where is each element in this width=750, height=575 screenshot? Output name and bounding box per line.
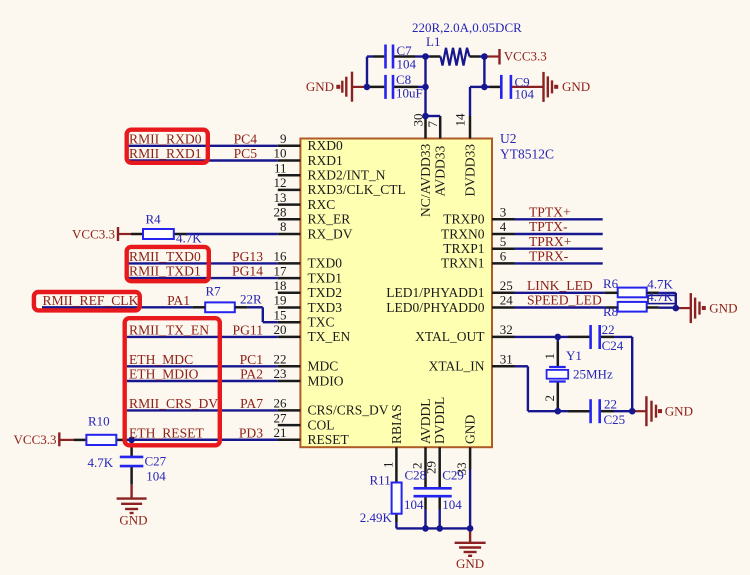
svg-text:C24: C24 [602,338,624,353]
svg-text:14: 14 [453,113,468,127]
svg-text:TPTX-: TPTX- [529,219,568,234]
svg-text:7: 7 [425,121,440,128]
svg-text:ETH_MDIO: ETH_MDIO [129,367,199,382]
svg-text:TRXP1: TRXP1 [443,241,484,256]
svg-text:R10: R10 [88,414,110,429]
svg-text:TPTX+: TPTX+ [529,205,571,220]
svg-text:21: 21 [274,425,287,440]
svg-text:PD3: PD3 [239,425,263,440]
svg-text:RXD2/INT_N: RXD2/INT_N [308,168,386,183]
svg-text:R6: R6 [603,276,619,291]
svg-text:XTAL_IN: XTAL_IN [429,359,485,374]
svg-text:R11: R11 [370,473,391,488]
svg-text:PA2: PA2 [240,367,263,382]
svg-text:PC4: PC4 [234,131,258,146]
svg-text:MDC: MDC [308,359,339,374]
svg-text:10uF: 10uF [396,86,423,101]
svg-text:PC5: PC5 [234,146,258,161]
svg-text:4.7K: 4.7K [88,455,114,470]
svg-text:RMII_RXD1: RMII_RXD1 [129,146,202,161]
svg-text:18: 18 [274,278,287,293]
svg-text:220R,2.0A,0.05DCR: 220R,2.0A,0.05DCR [412,20,522,35]
svg-text:12: 12 [274,175,287,190]
svg-text:MDIO: MDIO [308,373,344,388]
svg-text:LED1/PHYADD1: LED1/PHYADD1 [386,285,484,300]
svg-text:C27: C27 [145,454,167,469]
svg-text:RX_ER: RX_ER [308,212,351,227]
svg-text:17: 17 [274,263,288,278]
svg-text:4: 4 [500,219,507,234]
svg-text:1: 1 [542,353,557,360]
svg-text:PA7: PA7 [240,396,263,411]
svg-text:RMII_REF_CLK: RMII_REF_CLK [43,293,139,308]
svg-text:RXC: RXC [308,197,336,212]
svg-text:13: 13 [274,190,287,205]
svg-text:RX_DV: RX_DV [308,226,353,241]
svg-text:8: 8 [280,219,287,234]
svg-text:4.7K: 4.7K [176,231,202,246]
svg-text:104: 104 [397,56,417,71]
svg-text:25MHz: 25MHz [573,367,613,382]
svg-text:1: 1 [380,462,395,469]
svg-text:RMII_CRS_DV: RMII_CRS_DV [129,396,218,411]
svg-text:C25: C25 [604,412,626,427]
svg-text:DVDD33: DVDD33 [463,144,478,197]
svg-text:27: 27 [274,410,288,425]
svg-text:104: 104 [515,87,535,102]
svg-text:R8: R8 [603,304,618,319]
svg-text:2.49K: 2.49K [360,510,393,525]
svg-text:LINK_LED: LINK_LED [527,278,593,293]
svg-text:19: 19 [274,293,287,308]
svg-text:VCC3.3: VCC3.3 [14,432,57,447]
svg-text:GND: GND [463,415,478,444]
svg-text:CRS/CRS_DV: CRS/CRS_DV [308,403,389,418]
svg-text:GND: GND [709,300,737,315]
svg-text:GND: GND [456,556,484,571]
svg-text:LED0/PHYADD0: LED0/PHYADD0 [386,300,485,315]
svg-text:RMII_TXD1: RMII_TXD1 [129,264,201,279]
svg-text:NC/AVDD33: NC/AVDD33 [418,143,433,217]
svg-text:104: 104 [146,469,166,484]
svg-text:PG13: PG13 [232,249,263,264]
svg-text:RBIAS: RBIAS [389,404,404,444]
svg-text:RMII_TX_EN: RMII_TX_EN [129,322,209,337]
svg-text:Y1: Y1 [566,348,582,363]
svg-text:24: 24 [500,293,514,308]
svg-text:GND: GND [306,79,334,94]
svg-text:6: 6 [500,249,507,264]
svg-text:2: 2 [542,395,557,402]
svg-text:SPEED_LED: SPEED_LED [527,293,602,308]
svg-text:15: 15 [274,307,287,322]
svg-text:28: 28 [274,205,287,220]
svg-text:32: 32 [500,322,513,337]
svg-text:11: 11 [274,160,287,175]
svg-text:TXD1: TXD1 [308,270,343,285]
svg-text:104: 104 [404,497,424,512]
svg-text:U2: U2 [500,131,517,146]
svg-text:20: 20 [274,322,287,337]
svg-text:TXC: TXC [308,315,335,330]
svg-text:TRXN0: TRXN0 [441,226,485,241]
svg-text:TXD2: TXD2 [308,285,343,300]
svg-text:L1: L1 [426,34,440,49]
svg-text:TXD3: TXD3 [308,300,343,315]
svg-text:PG14: PG14 [232,264,263,279]
svg-text:C29: C29 [442,468,464,483]
svg-text:RMII_RXD0: RMII_RXD0 [129,131,202,146]
svg-text:COL: COL [308,417,335,432]
svg-text:30: 30 [411,114,426,127]
svg-text:RESET: RESET [308,432,350,447]
svg-text:PG11: PG11 [233,322,263,337]
svg-text:DVDDL: DVDDL [432,397,447,444]
svg-text:ETH_MDC: ETH_MDC [129,352,193,367]
svg-text:9: 9 [280,131,287,146]
svg-text:AVDD33: AVDD33 [433,145,448,196]
svg-text:31: 31 [500,352,513,367]
svg-text:VCC3.3: VCC3.3 [504,49,547,64]
svg-text:25: 25 [500,278,513,293]
svg-text:R7: R7 [206,284,222,299]
svg-text:TX_EN: TX_EN [308,329,351,344]
svg-text:22: 22 [274,352,287,367]
svg-text:PC1: PC1 [240,352,263,367]
svg-text:C28: C28 [405,468,427,483]
svg-text:RXD3/CLK_CTL: RXD3/CLK_CTL [308,182,406,197]
svg-text:23: 23 [274,366,287,381]
svg-text:GND: GND [562,79,590,94]
svg-text:RMII_TXD0: RMII_TXD0 [129,249,201,264]
svg-text:TRXN1: TRXN1 [441,256,485,271]
svg-text:22: 22 [604,397,617,412]
svg-text:YT8512C: YT8512C [500,147,554,162]
svg-text:R4: R4 [146,211,162,226]
svg-text:4.7K: 4.7K [647,289,673,304]
svg-text:GND: GND [119,512,147,527]
svg-text:22: 22 [602,322,615,337]
svg-text:TRXP0: TRXP0 [443,212,485,227]
svg-text:TXD0: TXD0 [308,256,343,271]
svg-text:TPRX-: TPRX- [529,249,569,264]
svg-text:XTAL_OUT: XTAL_OUT [415,329,485,344]
svg-text:10: 10 [274,146,287,161]
svg-text:104: 104 [442,497,462,512]
svg-text:RXD1: RXD1 [308,153,343,168]
svg-text:AVDDL: AVDDL [418,398,433,444]
svg-text:22R: 22R [240,292,262,307]
svg-text:ETH_RESET: ETH_RESET [129,425,204,440]
svg-text:16: 16 [274,249,288,264]
svg-text:3: 3 [500,205,507,220]
svg-text:26: 26 [274,396,288,411]
svg-text:RXD0: RXD0 [308,138,344,153]
svg-text:5: 5 [500,234,507,249]
svg-text:PA1: PA1 [167,293,190,308]
svg-text:VCC3.3: VCC3.3 [72,226,115,241]
svg-text:TPRX+: TPRX+ [529,234,571,249]
svg-text:GND: GND [665,403,693,418]
